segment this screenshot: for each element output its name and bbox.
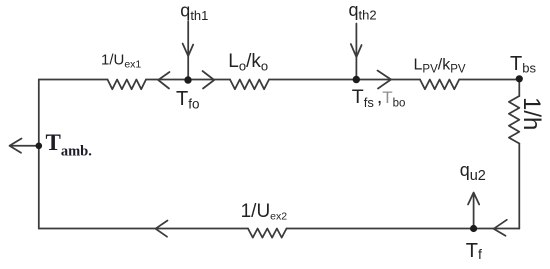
arrowhead up qu2 bbox=[468, 193, 479, 205]
wire top-left segment bbox=[39, 79, 108, 81]
wire bottom right segment bbox=[474, 228, 520, 230]
node Tf dot bbox=[470, 225, 477, 232]
svg-text:1/h: 1/h bbox=[518, 97, 545, 130]
resistor R2 Lo/ko bbox=[230, 80, 269, 90]
heat input line qth1 bbox=[187, 22, 189, 80]
arrowhead down qth1 bbox=[183, 44, 194, 57]
arrow left of node Tfo bbox=[158, 72, 169, 89]
resistor R5 1/h vertical bbox=[509, 96, 519, 144]
resistor R3 LPV/kPV bbox=[420, 80, 459, 90]
node Tbs dot bbox=[516, 75, 523, 82]
node Tfs dot bbox=[353, 76, 360, 83]
node Tfo dot bbox=[184, 76, 191, 83]
wire R3 to node Tbs bbox=[459, 79, 519, 81]
wire node Tfs to R3 bbox=[356, 79, 420, 81]
heat input line qth2 bbox=[355, 24, 357, 80]
wire R2 to node Tfs bbox=[269, 79, 356, 81]
arrow left on bottom wire left part bbox=[156, 221, 168, 237]
resistor R4 1/Uex2 bbox=[248, 229, 287, 238]
arrow right of node Tfs bbox=[378, 71, 392, 89]
resistor R1 1/Uex1 bbox=[108, 80, 147, 90]
wire right vertical upper bbox=[518, 80, 520, 97]
arrow shaft Tamb pointing left bbox=[10, 145, 37, 147]
node Tamb dot bbox=[36, 143, 43, 150]
wire node Tf to R4 bbox=[287, 228, 474, 230]
arrow shaft qu2 up from node Tf bbox=[473, 193, 475, 229]
wire left vertical bbox=[38, 80, 40, 229]
wire right vertical lower bbox=[518, 144, 520, 229]
wire R4 to left corner bbox=[39, 228, 248, 230]
arrow left on bottom wire right of Tf bbox=[494, 220, 507, 236]
wire node Tfo to R2 bbox=[188, 79, 230, 81]
arrow right of node Tfo bbox=[203, 71, 215, 89]
wire R1 to node Tfo bbox=[146, 79, 188, 81]
arrowhead down qth2 bbox=[351, 44, 362, 57]
arrowhead left Tamb bbox=[10, 139, 22, 153]
